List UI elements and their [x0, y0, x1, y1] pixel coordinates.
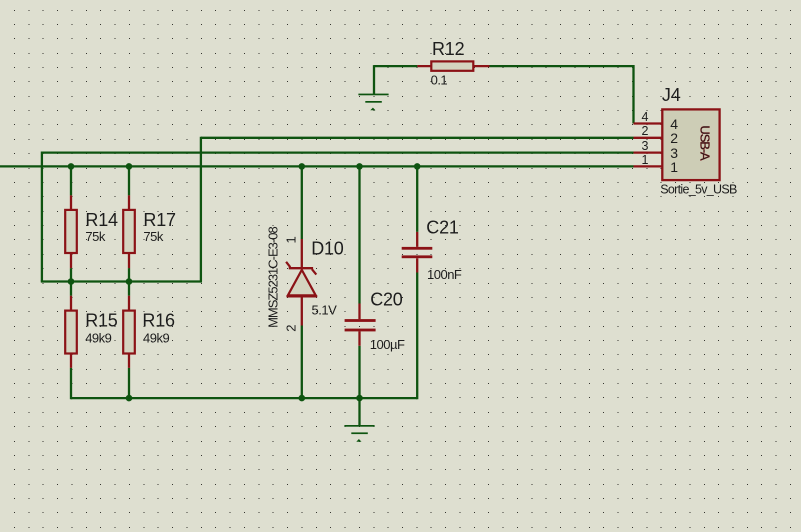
- svg-text:100µF: 100µF: [370, 337, 405, 352]
- wire D10 column: [301, 166, 303, 398]
- resistor R17: [123, 195, 176, 268]
- junction node D10 top: [299, 163, 306, 170]
- svg-text:C21: C21: [426, 218, 459, 238]
- svg-text:2: 2: [642, 124, 649, 138]
- svg-text:75k: 75k: [143, 229, 163, 244]
- svg-text:D10: D10: [311, 239, 344, 259]
- svg-text:100nF: 100nF: [427, 267, 462, 282]
- zener diode D10: [266, 227, 344, 332]
- svg-text:MMSZ5231C-E3-08: MMSZ5231C-E3-08: [266, 227, 281, 328]
- svg-text:1: 1: [670, 159, 678, 175]
- junction node R17 top: [126, 163, 133, 170]
- svg-text:0.1: 0.1: [431, 73, 448, 88]
- junction node R14 top: [68, 163, 75, 170]
- capacitor C21: [402, 218, 462, 282]
- ground (near R12): [358, 94, 388, 111]
- resistor R12: [417, 39, 489, 88]
- wire C20 column: [358, 166, 360, 398]
- junction node R16 bottom: [126, 395, 133, 402]
- svg-text:5.1V: 5.1V: [312, 302, 338, 317]
- svg-text:2: 2: [670, 130, 678, 146]
- svg-text:R16: R16: [142, 311, 175, 331]
- junction node C20 top: [356, 163, 363, 170]
- svg-text:3: 3: [642, 139, 649, 153]
- svg-text:4: 4: [642, 110, 649, 124]
- svg-text:2: 2: [284, 325, 299, 332]
- wire R17 column: [128, 166, 130, 281]
- svg-text:R14: R14: [85, 210, 118, 230]
- wire pin3 net horizontal: [42, 151, 634, 153]
- svg-text:49k9: 49k9: [85, 331, 111, 346]
- wire R16 column: [128, 282, 130, 399]
- svg-text:R15: R15: [85, 311, 118, 331]
- wire C21 column: [416, 166, 418, 399]
- wire R12 net left segment: [374, 65, 417, 67]
- svg-text:49k9: 49k9: [143, 331, 169, 346]
- wire R12 right to J4 pin 4: [490, 66, 634, 123]
- junction node D10 bottom: [299, 395, 306, 402]
- wire pin3 net left vertical column: [41, 152, 43, 282]
- svg-text:Sortie_5v_USB: Sortie_5v_USB: [660, 182, 737, 196]
- svg-text:1: 1: [642, 153, 649, 167]
- svg-text:R17: R17: [143, 210, 176, 230]
- connector J4 USB-A: [634, 85, 738, 196]
- wire bottom ground rail: [71, 397, 417, 399]
- svg-text:J4: J4: [662, 85, 681, 105]
- svg-text:1: 1: [284, 236, 299, 243]
- resistor R15: [65, 296, 118, 368]
- svg-text:75k: 75k: [85, 229, 105, 244]
- wire ground stub bottom: [358, 398, 360, 425]
- junction node C20 bottom: [356, 395, 363, 402]
- junction node C21 top: [414, 163, 421, 170]
- svg-text:C20: C20: [370, 290, 403, 310]
- wire pin2 net horizontal: [201, 137, 634, 139]
- wire pin2 net vertical column: [200, 137, 202, 282]
- wire R14 column: [70, 166, 72, 281]
- capacitor C20: [345, 290, 405, 353]
- junction node R17-R16 mid: [126, 278, 133, 285]
- junction node R14-R15 mid: [68, 278, 75, 285]
- wire R12 ground drop: [373, 65, 375, 95]
- wire divider mid rail: [41, 280, 202, 282]
- svg-text:R12: R12: [432, 39, 465, 59]
- resistor R14: [65, 195, 118, 268]
- svg-text:USB-A: USB-A: [697, 125, 712, 161]
- resistor R16: [123, 296, 175, 368]
- ground (bottom, near C20): [344, 425, 374, 442]
- wire pin1 VBUS rail: [0, 165, 634, 167]
- wire R15 column: [70, 282, 72, 400]
